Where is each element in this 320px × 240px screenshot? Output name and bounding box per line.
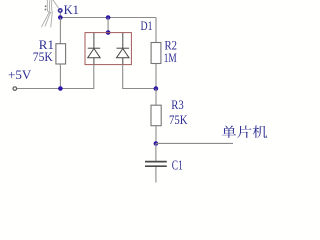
sketch dark ticks	[45, 6, 47, 10]
node junction C at D1 box top	[106, 30, 111, 35]
label MCU (danpianji)	[222, 125, 267, 138]
node junction E (R1 / +5V rail)	[58, 86, 63, 91]
wire: right diode leg down and right to node D	[123, 64, 156, 88]
wire: left diode leg down to +5V rail	[17, 64, 94, 88]
+5V terminal circle	[13, 87, 17, 91]
wire: junction B down to D1 box	[107, 18, 109, 33]
svg-text:75K: 75K	[33, 49, 54, 64]
wire: K1 pad stub	[59, 12, 61, 18]
diode D1a (left)	[88, 33, 101, 64]
wire: top rail from K1 to R2 branch	[60, 17, 156, 19]
capacitor C1	[155, 144, 157, 161]
svg-text:K1: K1	[64, 3, 79, 17]
D1 package box	[85, 33, 131, 65]
node junction A (K1)	[58, 15, 63, 20]
resistor R1	[59, 18, 61, 44]
svg-text:75K: 75K	[169, 112, 188, 127]
hand sketch (touching finger illustration)	[42, 0, 59, 27]
svg-text:1M: 1M	[164, 50, 177, 65]
diode D1b (right)	[117, 33, 130, 64]
resistor R3	[155, 89, 157, 106]
node junction B on top rail	[106, 15, 111, 20]
node junction F (R3/C1/MCU)	[154, 141, 159, 146]
svg-text:D1: D1	[141, 18, 153, 33]
touch pad K1 terminal circle	[59, 9, 62, 12]
svg-text:C1: C1	[172, 159, 183, 174]
wire: to MCU input	[156, 142, 233, 144]
svg-text:+5V: +5V	[8, 67, 32, 82]
node junction D (R2/R3/diode)	[154, 86, 159, 91]
resistor R2	[155, 18, 157, 43]
svg-text:R3: R3	[171, 97, 184, 112]
